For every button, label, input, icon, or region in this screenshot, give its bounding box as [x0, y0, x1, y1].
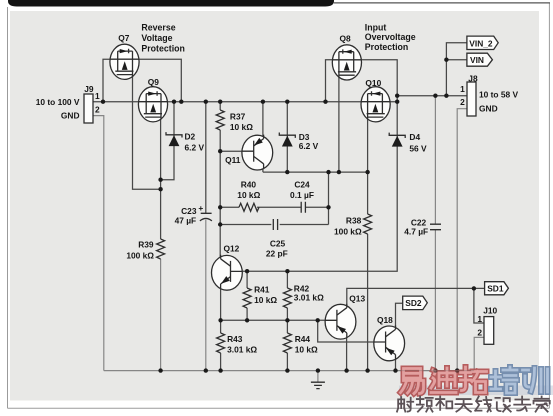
- wire Q11 collector down: [262, 165, 264, 172]
- node junction dots: [101, 100, 105, 104]
- svg-text:Q10: Q10: [365, 78, 381, 88]
- svg-text:2: 2: [477, 327, 482, 337]
- svg-text:Q13: Q13: [349, 293, 365, 303]
- svg-text:SD1: SD1: [487, 284, 504, 294]
- resistor R39: [157, 239, 165, 259]
- wire J10 pin2: [474, 337, 484, 370]
- wire J9 pin2 to ground rail: [93, 116, 104, 371]
- watermark ground rail dots showing through: [400, 368, 474, 372]
- wire C24-C25 right vertical: [328, 172, 330, 224]
- wire R42 R44 column: [286, 271, 288, 370]
- svg-text:Q8: Q8: [340, 33, 352, 43]
- svg-text:J10: J10: [483, 306, 497, 316]
- capacitor C23: [200, 213, 212, 221]
- wire mid node line y172: [263, 171, 368, 173]
- transistor Q13: [325, 304, 356, 339]
- svg-text:47 µF: 47 µF: [175, 216, 197, 226]
- ground: [317, 371, 319, 382]
- svg-text:GND: GND: [61, 111, 80, 121]
- svg-text:1: 1: [460, 84, 465, 94]
- svg-text:R44: R44: [295, 334, 311, 344]
- wire Q8 drain: [338, 75, 340, 172]
- svg-text:R43: R43: [227, 334, 243, 344]
- svg-text:R40: R40: [241, 180, 257, 190]
- transistor Q11: [242, 135, 273, 170]
- watermark underline band: [399, 386, 553, 396]
- capacitor C22: [430, 224, 441, 230]
- wire bottom ground rail: [104, 370, 474, 372]
- wire Q10 drain / R38 column: [367, 117, 369, 214]
- connector J10: [484, 317, 494, 345]
- diode D3: [279, 133, 295, 147]
- svg-text:10 kΩ: 10 kΩ: [295, 345, 318, 355]
- svg-text:Q11: Q11: [225, 155, 241, 165]
- wire J8 pin2 down: [457, 109, 467, 371]
- svg-text:22 pF: 22 pF: [266, 249, 288, 259]
- svg-text:Reverse: Reverse: [141, 23, 175, 33]
- top thin line right: [334, 2, 550, 4]
- svg-text:6.2 V: 6.2 V: [185, 143, 205, 153]
- svg-text:3.01 kΩ: 3.01 kΩ: [227, 345, 257, 355]
- wire D2 branch: [161, 102, 174, 180]
- svg-text:Q7: Q7: [118, 33, 130, 43]
- node flag SD2: [403, 296, 428, 310]
- transistor Q9: [138, 87, 167, 122]
- capacitor C24: [301, 202, 305, 213]
- wire J10 pin1: [474, 288, 484, 323]
- svg-text:10 kΩ: 10 kΩ: [254, 295, 277, 305]
- svg-text:R38: R38: [346, 215, 362, 225]
- wire R40 C24 line: [220, 206, 328, 208]
- capacitor C25: [273, 219, 277, 230]
- svg-text:3.01 kΩ: 3.01 kΩ: [294, 292, 324, 302]
- wire VIN flags branch: [446, 43, 467, 96]
- wire Q13 collector to SD1: [347, 288, 485, 306]
- svg-text:10 kΩ: 10 kΩ: [230, 122, 253, 132]
- svg-text:R37: R37: [230, 112, 246, 122]
- wire base line y320: [221, 319, 328, 321]
- wire Q7 loop: [103, 59, 181, 101]
- svg-text:R39: R39: [138, 240, 154, 250]
- wire C25 line: [220, 224, 328, 226]
- resistor R38: [364, 214, 372, 234]
- wire Q8 loop and D4 column to base bus: [242, 60, 397, 271]
- diode D2: [166, 132, 182, 146]
- wire Q12 emitter / R43 column: [220, 285, 222, 371]
- watermark logo big text: [401, 367, 548, 394]
- resistor R43: [217, 333, 225, 353]
- svg-text:D4: D4: [409, 132, 420, 142]
- svg-text:0.1 µF: 0.1 µF: [290, 190, 314, 200]
- wire Q18 collector to SD2: [396, 303, 403, 328]
- svg-text:2: 2: [95, 104, 100, 114]
- svg-text:VIN_2: VIN_2: [469, 38, 493, 48]
- svg-text:56 V: 56 V: [409, 143, 427, 153]
- svg-text:SD2: SD2: [405, 298, 422, 308]
- connector J8: [467, 82, 476, 116]
- transistor Q12: [212, 255, 243, 290]
- svg-text:C24: C24: [294, 180, 310, 190]
- wire R37 column: [219, 102, 221, 258]
- svg-text:2: 2: [460, 97, 465, 107]
- svg-text:100 kΩ: 100 kΩ: [334, 226, 362, 236]
- wire C23 column: [205, 102, 207, 214]
- svg-text:1: 1: [95, 91, 100, 101]
- svg-text:J8: J8: [468, 73, 478, 83]
- transistor Q8: [332, 45, 361, 80]
- svg-text:100 kΩ: 100 kΩ: [126, 251, 154, 261]
- wire C22 column: [434, 96, 436, 371]
- resistor R40: [239, 203, 259, 211]
- node flag VIN_2: [467, 36, 498, 49]
- wire D3 branch: [286, 102, 288, 172]
- svg-text:10 kΩ: 10 kΩ: [237, 190, 260, 200]
- svg-text:Input: Input: [365, 23, 387, 33]
- resistor R41: [243, 288, 251, 308]
- svg-text:+: +: [198, 203, 203, 213]
- resistor R42: [283, 288, 291, 308]
- connector J9: [84, 94, 93, 123]
- watermark slogan small text: [397, 397, 550, 412]
- svg-text:Protection: Protection: [141, 44, 185, 54]
- svg-text:Protection: Protection: [365, 42, 409, 52]
- svg-text:Q9: Q9: [148, 77, 160, 87]
- wire Q11 emitter up: [262, 102, 264, 140]
- wire Q18 emitter down: [395, 358, 397, 371]
- resistor R44: [283, 333, 291, 353]
- wire rail A input net: [93, 101, 397, 103]
- svg-text:R41: R41: [254, 284, 270, 294]
- wire Q18 base path: [318, 320, 376, 342]
- svg-text:J9: J9: [84, 84, 94, 94]
- svg-text:VIN: VIN: [470, 55, 484, 65]
- wire Q7 drain to node: [133, 74, 161, 189]
- diode D4: [389, 133, 405, 147]
- svg-text:D2: D2: [185, 132, 196, 142]
- svg-text:Q18: Q18: [377, 315, 393, 325]
- svg-text:10 to 58 V: 10 to 58 V: [479, 89, 519, 99]
- transistor Q18: [374, 325, 405, 360]
- svg-text:4.7 µF: 4.7 µF: [404, 227, 428, 237]
- svg-text:Voltage: Voltage: [141, 33, 172, 43]
- resistor R37: [216, 110, 224, 130]
- svg-text:Overvoltage: Overvoltage: [365, 32, 416, 42]
- top black bar: [8, 0, 334, 7]
- svg-text:C25: C25: [270, 239, 286, 249]
- transistor Q10: [361, 87, 390, 122]
- svg-text:Q12: Q12: [224, 243, 240, 253]
- wire Q13 emitter down: [346, 335, 348, 371]
- svg-text:1: 1: [477, 314, 482, 324]
- wire R41 branch: [246, 271, 248, 320]
- svg-text:GND: GND: [479, 103, 498, 113]
- wire Q9 drain / R39 column: [160, 117, 162, 239]
- wire Q11 base: [220, 150, 244, 152]
- svg-text:10 to 100 V: 10 to 100 V: [36, 97, 80, 107]
- node flag VIN: [467, 53, 493, 66]
- transistor Q7: [110, 44, 139, 79]
- wire rail B output net: [397, 95, 467, 97]
- svg-text:6.2 V: 6.2 V: [299, 141, 319, 151]
- node flag SD1: [485, 282, 509, 295]
